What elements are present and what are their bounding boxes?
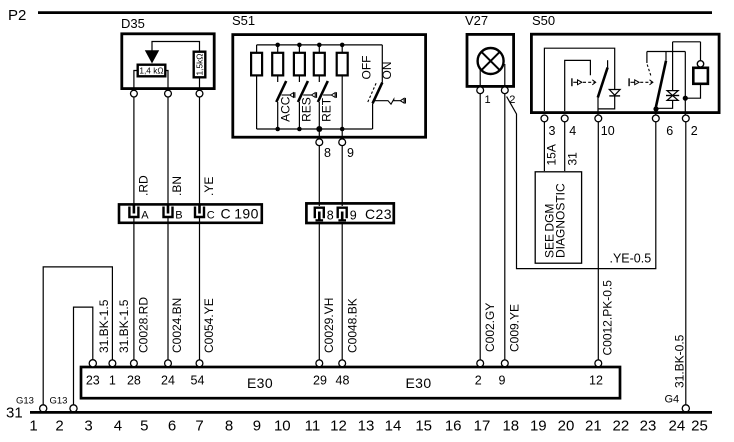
svg-text:5: 5 xyxy=(140,418,148,435)
svg-text:C009.YE: C009.YE xyxy=(507,304,521,352)
svg-text:9: 9 xyxy=(253,418,261,435)
S51 bottom bus xyxy=(257,126,373,132)
S50 terminal 10 xyxy=(595,115,615,138)
S50 terminal 3 xyxy=(541,115,556,138)
E30 pin 23 xyxy=(86,360,100,388)
svg-text:.RD: .RD xyxy=(137,175,151,196)
wire C190 A to E30 pin 28 xyxy=(134,218,151,360)
S51 resistor 3 xyxy=(294,43,305,76)
S50 terminal 6 xyxy=(652,115,673,138)
svg-text:8: 8 xyxy=(327,209,334,223)
wire C23 8 to E30 pin 29 xyxy=(319,222,336,360)
S51 switch RET xyxy=(318,75,337,129)
S50 left inner loop xyxy=(565,60,591,111)
E30 pin 54 xyxy=(191,360,205,388)
svg-text:48: 48 xyxy=(336,374,350,388)
svg-text:7: 7 xyxy=(195,418,203,435)
svg-text:4: 4 xyxy=(114,418,122,435)
svg-text:C0054.YE: C0054.YE xyxy=(202,298,216,353)
svg-text:C0024.BN: C0024.BN xyxy=(170,298,184,353)
D35 pin circles xyxy=(131,90,203,97)
svg-text:C0012.PK-0.5: C0012.PK-0.5 xyxy=(601,280,615,356)
svg-text:OFF: OFF xyxy=(359,56,373,80)
svg-text:1: 1 xyxy=(109,374,116,388)
S50 top-right component xyxy=(673,42,708,101)
wire S50 4 to diagnostic box xyxy=(565,122,580,171)
svg-text:31.BK-0.5: 31.BK-0.5 xyxy=(673,334,687,388)
svg-text:16: 16 xyxy=(445,418,462,435)
svg-text:2: 2 xyxy=(475,374,482,388)
S50 right switch blade xyxy=(653,52,666,116)
E30 pin 29 xyxy=(313,360,327,388)
svg-text:C23: C23 xyxy=(365,206,392,222)
svg-text:RET: RET xyxy=(319,97,333,122)
S51 terminal 9 xyxy=(339,129,354,160)
S50 terminal 4 xyxy=(561,115,576,138)
switch unit S50 xyxy=(531,13,719,113)
svg-text:22: 22 xyxy=(613,418,630,435)
svg-text:.YE-0.5: .YE-0.5 xyxy=(610,252,652,266)
svg-text:17: 17 xyxy=(474,418,491,435)
svg-text:1,4 kΩ: 1,4 kΩ xyxy=(139,65,163,75)
diagnostic note box xyxy=(535,172,581,263)
control unit D35 xyxy=(121,16,214,89)
svg-text:8: 8 xyxy=(324,146,331,160)
svg-text:24: 24 xyxy=(669,418,686,435)
svg-text:9: 9 xyxy=(347,146,354,160)
svg-text:V27: V27 xyxy=(465,13,488,28)
S51 resistor 5 xyxy=(337,43,348,129)
S50 left pedal actuator xyxy=(572,78,596,86)
wire C190 C to E30 pin 54 xyxy=(200,218,216,360)
svg-text:E30: E30 xyxy=(247,375,273,391)
S50 terminal 2 inner lead xyxy=(684,52,686,116)
svg-text:1: 1 xyxy=(485,94,491,106)
svg-text:11: 11 xyxy=(305,418,321,435)
S50 suppressor diode (hourglass) xyxy=(656,42,679,109)
wire V27 2 to S50 6 (.YE-0.5) xyxy=(507,97,656,269)
svg-text:.YE: .YE xyxy=(202,177,216,196)
ruler numbers xyxy=(29,418,708,435)
svg-text:6: 6 xyxy=(666,124,673,138)
svg-text:P2: P2 xyxy=(8,7,26,24)
svg-text:28: 28 xyxy=(127,374,141,388)
svg-text:9: 9 xyxy=(499,374,506,388)
C190 pin C xyxy=(195,204,215,222)
E30 pin 24 xyxy=(161,360,175,388)
svg-text:S51: S51 xyxy=(232,13,255,28)
svg-text:2: 2 xyxy=(691,124,698,138)
E30 pin 1 xyxy=(109,360,116,388)
svg-text:12: 12 xyxy=(589,374,603,388)
S51 top bus xyxy=(257,44,383,46)
svg-text:31: 31 xyxy=(6,405,23,422)
svg-text:10: 10 xyxy=(274,418,291,435)
D35 internal leads xyxy=(134,71,200,90)
svg-text:15: 15 xyxy=(415,418,432,435)
ground terminal G4 xyxy=(665,394,690,413)
svg-text:23: 23 xyxy=(640,418,657,435)
wire E30 pin 1 to G13 xyxy=(43,267,131,405)
svg-text:C002.GY: C002.GY xyxy=(483,303,497,352)
S51 resistor 2 xyxy=(272,43,283,76)
wire S50 10 to E30 pin 12 xyxy=(598,122,614,360)
svg-text:31.BK-1.5: 31.BK-1.5 xyxy=(97,299,111,353)
svg-text:C: C xyxy=(207,210,215,222)
svg-text:23: 23 xyxy=(86,374,100,388)
svg-text:12: 12 xyxy=(330,418,347,435)
C190 pin A xyxy=(129,204,149,222)
svg-text:D35: D35 xyxy=(121,16,145,31)
bus 31 xyxy=(6,405,712,422)
wire S51 terminal 8 to C23 xyxy=(318,146,320,206)
V27 terminal 1 xyxy=(477,87,491,106)
V27 bulb symbol xyxy=(478,48,505,86)
wire E30 pin 23 to G13 xyxy=(74,299,112,404)
svg-text:9: 9 xyxy=(350,209,357,223)
svg-text:31.BK-1.5: 31.BK-1.5 xyxy=(117,299,131,353)
wire S50 2 to G4 xyxy=(673,122,687,405)
C23 pin 9 xyxy=(338,208,357,223)
wire S51 terminal 9 to C23 xyxy=(341,146,343,206)
ground terminal G13 (left) xyxy=(16,396,47,413)
wire D35 pin C to C190 xyxy=(200,97,217,205)
S50 left outer loop with diode xyxy=(544,48,620,111)
S50 left switch blade xyxy=(598,60,608,115)
E30 pin 12 xyxy=(589,360,603,388)
svg-text:21: 21 xyxy=(585,418,602,435)
wire C190 B to E30 pin 24 xyxy=(168,218,184,360)
wire D35 pin A to C190 xyxy=(134,97,151,205)
svg-text:24: 24 xyxy=(161,374,175,388)
svg-text:ON: ON xyxy=(380,62,394,80)
S51 resistor 1 xyxy=(251,45,262,129)
svg-text:DIAGNOSTIC: DIAGNOSTIC xyxy=(554,183,568,258)
svg-text:25: 25 xyxy=(691,418,708,435)
svg-text:29: 29 xyxy=(313,374,327,388)
C23 pin 8 xyxy=(315,208,334,223)
wire V27 2 to E30 pin 9 xyxy=(505,94,522,360)
svg-text:.BN: .BN xyxy=(170,176,184,196)
svg-text:6: 6 xyxy=(168,418,176,435)
S51 switch RES xyxy=(298,75,317,129)
S51 resistor 4 xyxy=(314,43,325,76)
ground terminal G13 (right) xyxy=(50,396,78,413)
E30 pin 2 xyxy=(475,360,484,388)
bus P2 xyxy=(8,7,712,24)
wire C23 9 to E30 pin 48 xyxy=(342,222,359,360)
svg-text:8: 8 xyxy=(225,418,233,435)
S50 right inner loop xyxy=(647,52,685,76)
V27 terminal 2 xyxy=(501,87,515,106)
svg-text:G4: G4 xyxy=(665,394,680,406)
E30 pin 28 xyxy=(127,360,141,388)
svg-text:15A: 15A xyxy=(545,144,559,165)
connector C23 xyxy=(306,203,393,223)
svg-text:19: 19 xyxy=(530,418,547,435)
switch unit S51 xyxy=(232,13,426,137)
svg-text:C0048.BK: C0048.BK xyxy=(345,298,359,353)
S51 ON/OFF switch xyxy=(359,45,405,129)
ECU connector E30 xyxy=(81,367,620,398)
svg-text:RES: RES xyxy=(300,97,314,122)
svg-text:C0028.RD: C0028.RD xyxy=(137,297,151,353)
svg-text:54: 54 xyxy=(191,374,205,388)
svg-text:2: 2 xyxy=(55,418,63,435)
lamp V27 xyxy=(465,13,514,86)
svg-text:20: 20 xyxy=(558,418,575,435)
svg-text:14: 14 xyxy=(385,418,402,435)
svg-text:31: 31 xyxy=(566,152,580,166)
svg-text:E30: E30 xyxy=(405,375,431,391)
svg-text:1: 1 xyxy=(29,418,37,435)
S50 right pedal actuator xyxy=(629,78,653,86)
svg-text:A: A xyxy=(141,210,149,222)
resistor 1,4 kOhm xyxy=(138,65,166,77)
connector C190 xyxy=(119,204,262,222)
svg-text:2: 2 xyxy=(509,94,515,106)
C190 pin B xyxy=(164,204,183,222)
wire D35 pin B to C190 xyxy=(168,97,184,205)
E30 pin 48 xyxy=(336,360,350,388)
S50 terminal 2 xyxy=(682,115,697,138)
svg-text:1,5kΩ: 1,5kΩ xyxy=(195,54,205,76)
svg-text:S50: S50 xyxy=(532,13,555,28)
wire V27 1 to E30 pin 2 xyxy=(480,94,497,360)
diode inside D35 xyxy=(145,42,200,64)
svg-text:3: 3 xyxy=(549,124,556,138)
svg-text:G13: G13 xyxy=(50,396,68,407)
svg-text:C 190: C 190 xyxy=(221,206,259,222)
resistor 1,5 kOhm xyxy=(194,52,206,78)
svg-text:10: 10 xyxy=(601,124,615,138)
wire S50 3 to diagnostic box xyxy=(544,122,558,171)
svg-text:C0029.VH: C0029.VH xyxy=(322,298,336,353)
S51 terminal 8 xyxy=(316,129,331,160)
svg-text:18: 18 xyxy=(502,418,519,435)
svg-text:ACC: ACC xyxy=(278,96,292,122)
svg-text:13: 13 xyxy=(358,418,375,435)
svg-text:B: B xyxy=(175,210,182,222)
svg-text:4: 4 xyxy=(569,124,576,138)
svg-text:3: 3 xyxy=(84,418,92,435)
E30 pin 9 xyxy=(499,360,509,388)
S51 switch ACC xyxy=(276,75,295,129)
